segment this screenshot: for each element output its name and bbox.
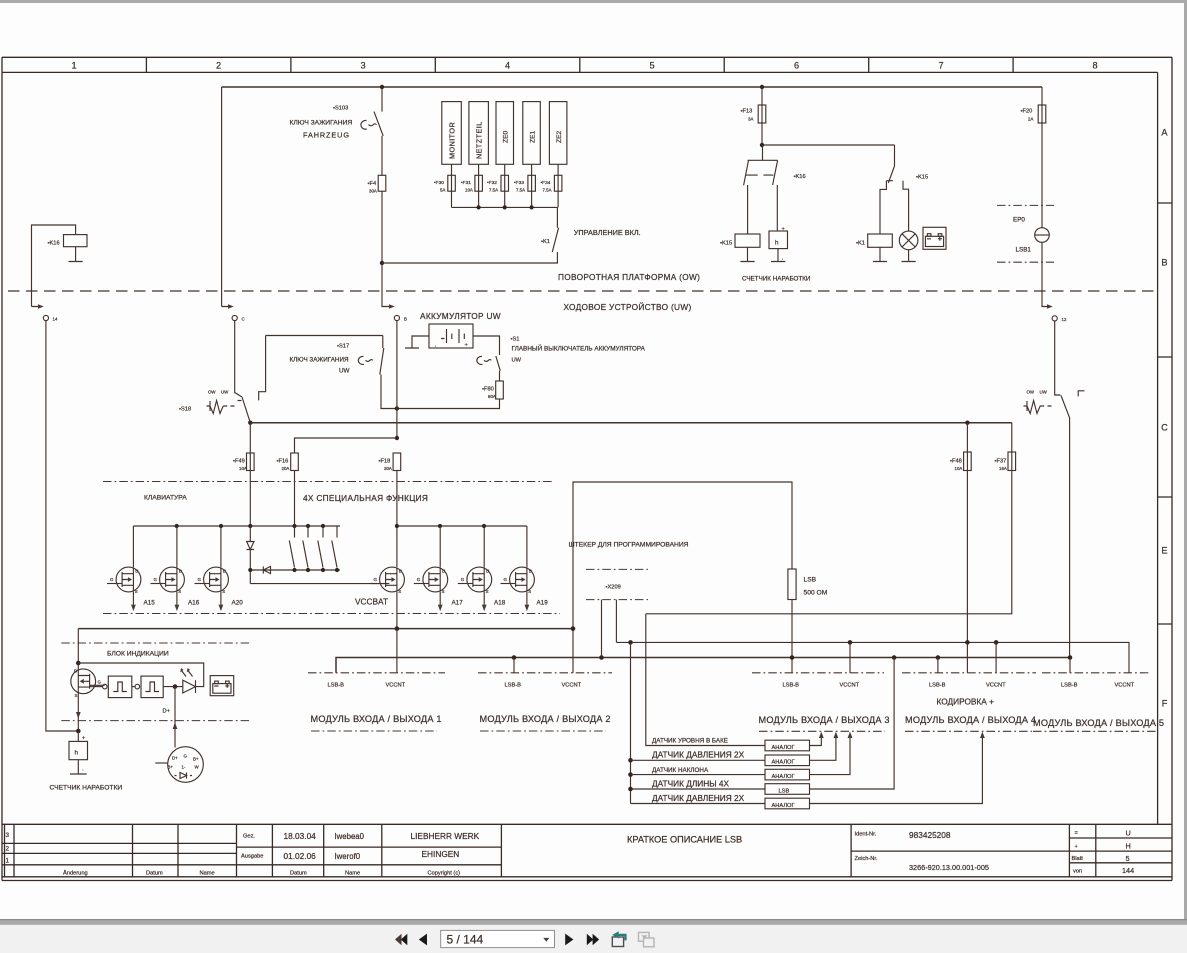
junction F48/VCCNT2 (965, 640, 970, 645)
svg-text:4: 4 (505, 61, 510, 71)
fuse F80 (496, 381, 504, 399)
svg-text:30A: 30A (384, 466, 392, 471)
rotate/insert icon (enabled, teal arrow) (612, 931, 625, 946)
fuse F34 (557, 164, 559, 207)
wire to K15 coil (747, 185, 749, 234)
dashed OW/UW separator (8, 290, 1155, 292)
row letters (1161, 128, 1168, 709)
svg-text:•K16: •K16 (794, 174, 806, 180)
wire col3 drop to B (382, 263, 392, 307)
svg-text:ШТЕКЕР ДЛЯ ПРОГРАММИРОВАНИЯ: ШТЕКЕР ДЛЯ ПРОГРАММИРОВАНИЯ (569, 542, 689, 549)
terminal circle B (394, 315, 399, 320)
junction module2 LSB-B (512, 655, 517, 660)
transistor A17 (414, 567, 448, 592)
svg-text:C: C (242, 317, 245, 322)
svg-text:•F32: •F32 (487, 180, 497, 186)
lamp (899, 231, 918, 250)
last-page button (587, 934, 594, 945)
svg-text:•K16: •K16 (48, 241, 60, 247)
svg-text:LSB-B: LSB-B (505, 683, 522, 689)
transistor A18 (458, 567, 492, 592)
junction X209 pin1 (599, 655, 604, 660)
wire sensor feed drop (630, 642, 632, 803)
wire B drop to F18 (396, 321, 398, 438)
svg-text:8: 8 (1092, 61, 1097, 71)
svg-text:A: A (1161, 128, 1168, 138)
indicator dashed border bottom (61, 720, 252, 722)
connector EP0/LSB1 (997, 204, 1054, 206)
svg-text:7: 7 (938, 61, 943, 71)
svg-text:КОДИРОВКА +: КОДИРОВКА + (937, 697, 995, 707)
svg-text:5: 5 (1126, 854, 1130, 863)
svg-text:•F33: •F33 (514, 180, 524, 186)
svg-text:10A: 10A (465, 188, 473, 193)
svg-text:C: C (1161, 423, 1168, 433)
fuse F16 (291, 453, 299, 471)
svg-text:A16: A16 (188, 600, 200, 607)
sensor row2 dot (628, 758, 633, 763)
svg-text:LSB: LSB (804, 577, 817, 584)
wire F48 leg (966, 423, 968, 643)
junction VCCBAT drain (395, 524, 399, 528)
wire VCCNT bus (78, 628, 573, 630)
fuse F20 (1041, 87, 1043, 228)
svg-text:E: E (1161, 546, 1167, 556)
svg-text:10A: 10A (955, 466, 963, 471)
svg-text:A17: A17 (452, 600, 464, 607)
svg-text:EHINGEN: EHINGEN (422, 849, 460, 859)
sensor row3 arrow to module3 (810, 738, 851, 775)
svg-text:СЧЕТЧИК НАРАБОТКИ: СЧЕТЧИК НАРАБОТКИ (742, 276, 811, 283)
wire battery left to earth (405, 336, 429, 348)
svg-text:H: H (1126, 842, 1131, 851)
indicator source arrow (77, 693, 79, 731)
wire VCCBAT gate feed (250, 583, 389, 585)
svg-text:7.5A: 7.5A (543, 188, 552, 193)
junction module2 VCCNT (571, 626, 576, 631)
junction F31 bus (477, 205, 481, 209)
module5 LSB-B drop (1069, 658, 1071, 673)
svg-text:LIEBHERR WERK: LIEBHERR WERK (411, 831, 480, 841)
svg-text:•K15: •K15 (916, 175, 928, 181)
svg-text:МОДУЛЬ ВХОДА / ВЫХОДА 4: МОДУЛЬ ВХОДА / ВЫХОДА 4 (905, 715, 1036, 725)
svg-text:500 ОМ: 500 ОМ (804, 590, 828, 597)
module dash tops (308, 672, 445, 674)
wire 14 drop (46, 321, 78, 731)
contact K15 (880, 145, 909, 234)
duplicate icon (disabled, gray) (639, 932, 655, 946)
svg-text:D+: D+ (163, 709, 171, 715)
junction A20 drain (219, 524, 223, 528)
transistor indicator (mirrored) (71, 669, 105, 694)
svg-text:ДАТЧИК ДЛИНЫ 4Х: ДАТЧИК ДЛИНЫ 4Х (652, 778, 729, 788)
first-page button (395, 934, 402, 945)
junction module4 VCCNT (994, 640, 999, 645)
svg-text:12: 12 (1062, 317, 1067, 322)
svg-text:G: G (184, 754, 188, 759)
svg-text:•K1: •K1 (541, 239, 550, 245)
svg-text:U: U (1126, 829, 1131, 838)
switch SF2 (303, 526, 308, 568)
sensor row4 box (765, 784, 810, 795)
wire F16 link (295, 438, 397, 453)
fuse F48 (964, 452, 972, 471)
svg-text:•F30: •F30 (434, 180, 444, 186)
svg-text:5 / 144: 5 / 144 (447, 933, 484, 947)
svg-text:•F80: •F80 (482, 387, 494, 393)
svg-text:КЛЮЧ ЗАЖИГАНИЯ: КЛЮЧ ЗАЖИГАНИЯ (290, 357, 350, 364)
connector X209 (586, 568, 648, 570)
svg-text:3: 3 (6, 832, 10, 839)
svg-text:18.03.04: 18.03.04 (284, 831, 317, 841)
svg-text:Ident-Nr.: Ident-Nr. (855, 832, 877, 838)
svg-text:LSB-B: LSB-B (929, 683, 946, 689)
transistor A19 (501, 567, 535, 592)
terminal circle 12 (1052, 316, 1057, 321)
keyboard dashed border top (103, 481, 554, 483)
sensor row4 dot (628, 787, 633, 792)
module1 drops (396, 629, 398, 673)
svg-text:.: . (782, 255, 784, 262)
wire battery right to S1 (473, 336, 500, 355)
relay coil K16 (64, 235, 88, 247)
wire EP0 drop (1042, 242, 1050, 306)
svg-text:•S1: •S1 (511, 337, 520, 343)
svg-text:Blatt: Blatt (1072, 856, 1084, 862)
fuse F30 (451, 164, 453, 207)
switch S103 ignition key FAHRZEUG (374, 87, 383, 175)
fuse F37 (1008, 452, 1016, 471)
svg-text:2: 2 (216, 61, 221, 71)
svg-text:7.5A: 7.5A (516, 188, 525, 193)
junction module4 LSB-B (936, 655, 941, 660)
junction module3 VCCNT (848, 640, 853, 645)
junction F49 feed (248, 524, 252, 528)
junction A17 drain (438, 524, 442, 528)
wire K15 contact feed (762, 144, 895, 146)
relay K16 branch (left) (32, 225, 76, 307)
box ZE2 (549, 102, 567, 165)
svg-text:FAHRZEUG: FAHRZEUG (303, 131, 350, 140)
svg-text:•F37: •F37 (995, 459, 1007, 465)
svg-text:20A: 20A (282, 466, 290, 471)
svg-text:h: h (775, 240, 779, 247)
wire programming loop (573, 482, 792, 673)
svg-text:2: 2 (6, 846, 10, 853)
transistor VCCBAT (371, 567, 405, 592)
sensor row3 dot (628, 772, 633, 777)
svg-text:Änderung: Änderung (63, 870, 88, 877)
switch S17 ignition key UW (259, 336, 397, 409)
svg-text:•S18: •S18 (179, 407, 191, 413)
fuse F33 (531, 164, 533, 207)
junction sensor feed (628, 640, 633, 645)
wire fuse bus (452, 206, 558, 208)
indicator dashed border top (61, 642, 252, 644)
svg-text:LSB1: LSB1 (1016, 247, 1032, 254)
svg-text:АНАЛОГ: АНАЛОГ (772, 760, 795, 766)
svg-text:•F20: •F20 (1021, 109, 1033, 115)
terminal circle 14 (43, 315, 48, 320)
sensor row1 arrow to module3 (810, 738, 822, 746)
svg-text:NETZTEIL: NETZTEIL (475, 121, 484, 159)
svg-text:КЛАВИАТУРА: КЛАВИАТУРА (144, 495, 187, 502)
switch SF3 (318, 526, 323, 568)
LED (163, 686, 183, 688)
junction SF3 top (321, 524, 325, 528)
toolbar separator band (0, 919, 1187, 925)
module2 LSB-B drop (513, 658, 515, 673)
junction A16 drain (175, 524, 179, 528)
svg-text:ХОДОВОЕ УСТРОЙСТВО (UW): ХОДОВОЕ УСТРОЙСТВО (UW) (564, 301, 692, 312)
svg-text:МОДУЛЬ ВХОДА / ВЫХОДА 3: МОДУЛЬ ВХОДА / ВЫХОДА 3 (759, 715, 890, 725)
svg-text:2A: 2A (1028, 117, 1033, 122)
svg-text:•F34: •F34 (541, 180, 551, 186)
wire right drain bus (397, 525, 527, 527)
LED return wire (78, 663, 203, 687)
svg-text:МОДУЛЬ ВХОДА / ВЫХОДА 5: МОДУЛЬ ВХОДА / ВЫХОДА 5 (1033, 718, 1164, 728)
svg-text:АККУМУЛЯТОР UW: АККУМУЛЯТОР UW (420, 311, 501, 321)
svg-text:.: . (82, 766, 84, 773)
svg-text:UW: UW (512, 358, 522, 364)
resistor LSB 500 Ohm (788, 569, 796, 600)
junction SF1 top (292, 524, 296, 528)
svg-text:1: 1 (6, 858, 10, 865)
sensor row5 box (765, 798, 810, 809)
contact K16 changeover (744, 145, 778, 185)
svg-text:СЧЕТЧИК НАРАБОТКИ: СЧЕТЧИК НАРАБОТКИ (50, 785, 123, 792)
svg-text:VCCNT: VCCNT (840, 683, 860, 689)
svg-text:6: 6 (794, 61, 799, 71)
wire VCCNT corner to indicator mosfet (77, 629, 79, 663)
svg-text:B: B (1161, 258, 1167, 268)
fuse F31 (478, 164, 480, 207)
svg-text:Iwebea0: Iwebea0 (335, 832, 365, 841)
switch SF1 (289, 526, 294, 568)
module3 VCCNT drop (849, 642, 851, 672)
svg-text:Gez.: Gez. (243, 834, 255, 840)
svg-text:УПРАВЛЕНИЕ ВКЛ.: УПРАВЛЕНИЕ ВКЛ. (574, 228, 641, 237)
battery icon (indicator) (210, 676, 234, 696)
svg-text:ZE2: ZE2 (556, 130, 563, 143)
schmitt trigger 1 (90, 686, 103, 688)
pin labels (328, 683, 1135, 689)
svg-text:3266-920.13.00.001-005: 3266-920.13.00.001-005 (909, 863, 989, 872)
svg-text:UW: UW (339, 368, 350, 375)
node top rail col6 (760, 85, 764, 89)
svg-text:MONITOR: MONITOR (448, 122, 457, 159)
transistor A16 (151, 567, 185, 592)
wire row-C bus (250, 422, 1012, 424)
module4 VCCNT drop (995, 642, 997, 672)
wire to hour counter (776, 185, 778, 231)
sensor row3 box (765, 769, 810, 780)
svg-text:A18: A18 (494, 600, 506, 607)
box ZE1 (523, 102, 541, 165)
svg-text:1-: 1- (182, 765, 186, 770)
sensor row4 wire to LSB-B bus (810, 658, 895, 790)
X209 pin2 wire (615, 600, 617, 643)
svg-text:OW: OW (208, 390, 216, 395)
svg-text:VCCNT: VCCNT (1115, 683, 1135, 689)
junction LSB resistor / module3 LSB-B (790, 655, 795, 660)
svg-text:КЛЮЧ ЗАЖИГАНИЯ: КЛЮЧ ЗАЖИГАНИЯ (290, 120, 353, 127)
hour counter h (769, 231, 788, 249)
transistor A20 (195, 567, 229, 592)
svg-text:•S17: •S17 (337, 344, 349, 350)
X209 pin1 wire (601, 600, 603, 658)
battery UW (429, 324, 473, 348)
svg-text:G: G (98, 680, 102, 685)
sensor row5 wire (631, 803, 766, 805)
junction F32 bus (503, 205, 507, 209)
svg-text:A19: A19 (537, 600, 549, 607)
svg-text:ДАТЧИК ДАВЛЕНИЯ 2Х: ДАТЧИК ДАВЛЕНИЯ 2Х (652, 750, 745, 760)
svg-text:АНАЛОГ: АНАЛОГ (772, 803, 795, 809)
junction A18 drain (482, 524, 486, 528)
svg-text:LSB-B: LSB-B (1061, 683, 1078, 689)
svg-text:A15: A15 (144, 600, 156, 607)
svg-text:EP0: EP0 (1013, 217, 1025, 224)
schmitt trigger 2 (132, 686, 135, 688)
node F13 bottom (760, 143, 764, 147)
column numbers (71, 61, 1097, 71)
diode to switches (250, 569, 340, 571)
sensor row2 arrow to module3 (810, 738, 836, 761)
svg-text:Name: Name (200, 871, 215, 877)
svg-text:h: h (75, 750, 79, 757)
svg-text:30A: 30A (369, 189, 377, 194)
node S18/bus (248, 421, 252, 425)
svg-text:МОДУЛЬ ВХОДА / ВЫХОДА 1: МОДУЛЬ ВХОДА / ВЫХОДА 1 (311, 714, 442, 724)
box ZE0 (496, 102, 514, 165)
svg-text:Zeich-Nr.: Zeich-Nr. (855, 856, 878, 862)
wire keyboard bus (133, 525, 340, 527)
box NETZTEIL (469, 102, 489, 165)
module names (311, 714, 1165, 728)
svg-text:UW: UW (1040, 390, 1048, 395)
svg-text:OW: OW (1027, 390, 1035, 395)
svg-text:1: 1 (71, 61, 76, 71)
svg-text:4Х СПЕЦИАЛЬНАЯ ФУНКЦИЯ: 4Х СПЕЦИАЛЬНАЯ ФУНКЦИЯ (303, 493, 428, 503)
generator (168, 747, 204, 783)
svg-text:ДАТЧИК НАКЛОНА: ДАТЧИК НАКЛОНА (652, 767, 709, 774)
prev-page button (419, 934, 427, 946)
diode series (249, 526, 251, 541)
svg-text:01.02.06: 01.02.06 (284, 851, 317, 861)
svg-text:•F13: •F13 (741, 109, 753, 115)
switch SF4 (332, 526, 337, 568)
fuse F13 (761, 87, 763, 145)
svg-text:LSB-B: LSB-B (328, 683, 345, 689)
svg-text:LSB: LSB (779, 788, 790, 794)
sensor row1 box (765, 740, 810, 751)
svg-text:•K1: •K1 (856, 241, 865, 247)
svg-text:B+: B+ (193, 757, 199, 762)
wire VCCNT2 line (616, 642, 1129, 672)
module4 coding drop (966, 643, 968, 673)
node F16/F18 tie (395, 436, 399, 440)
node F48 tap (965, 421, 969, 425)
svg-text:ZE0: ZE0 (503, 130, 510, 143)
wire column2 drop (222, 87, 231, 307)
svg-text:•F4: •F4 (368, 181, 377, 187)
svg-text:•F48: •F48 (950, 459, 962, 465)
wire LSB-B bus (336, 658, 1070, 673)
battery icon (OW) (923, 227, 946, 249)
junction sensor LSB line (892, 655, 897, 660)
node counter tie (76, 729, 81, 734)
svg-text:ПОВОРОТНАЯ ПЛАТФОРМА (OW): ПОВОРОТНАЯ ПЛАТФОРМА (OW) (558, 272, 700, 282)
svg-text:3: 3 (360, 61, 365, 71)
svg-text:5A: 5A (440, 188, 445, 193)
module name dash underlines (311, 730, 437, 732)
svg-text:5: 5 (649, 61, 654, 71)
svg-text:Datum: Datum (146, 871, 163, 877)
node top rail col3 (380, 85, 384, 89)
svg-text:S: S (75, 693, 78, 698)
svg-text:МОДУЛЬ ВХОДА / ВЫХОДА 2: МОДУЛЬ ВХОДА / ВЫХОДА 2 (480, 714, 611, 724)
svg-text:Ausgabe: Ausgabe (241, 854, 263, 860)
fuse F32 (504, 164, 506, 207)
svg-text:A20: A20 (232, 600, 244, 607)
svg-text:•K15: •K15 (720, 241, 732, 247)
svg-text:•F49: •F49 (233, 459, 245, 465)
svg-text:Datum: Datum (290, 871, 307, 877)
wire F37 leg (646, 423, 1012, 614)
sensor row2 wire (631, 759, 766, 761)
svg-text:VCCNT: VCCNT (386, 683, 406, 689)
junction module5 LSB-B (1068, 655, 1073, 660)
svg-text:VCCNT: VCCNT (986, 683, 1006, 689)
svg-text:БЛОК ИНДИКАЦИИ: БЛОК ИНДИКАЦИИ (107, 651, 169, 658)
node indicator drain (76, 661, 81, 666)
wire top rail (222, 86, 1042, 88)
junction diode rail (248, 568, 252, 572)
svg-text:LSB-B: LSB-B (783, 683, 800, 689)
contact K1 (552, 207, 558, 252)
svg-text:14: 14 (53, 317, 58, 322)
svg-text:16A: 16A (999, 466, 1007, 471)
svg-text:•S103: •S103 (333, 106, 348, 112)
svg-text:ГЛАВНЫЙ ВЫКЛЮЧАТЕЛЬ АККУМУЛЯТО: ГЛАВНЫЙ ВЫКЛЮЧАТЕЛЬ АККУМУЛЯТОРА (512, 344, 646, 353)
svg-text:Iwerof0: Iwerof0 (335, 852, 361, 861)
svg-text:•F18: •F18 (379, 459, 391, 465)
fuse F18 (393, 453, 401, 471)
page combobox (441, 930, 555, 947)
svg-text:F: F (1162, 699, 1168, 709)
svg-text:983425208: 983425208 (909, 830, 951, 840)
svg-text:B+: B+ (168, 765, 174, 770)
switch S18 blade (242, 397, 250, 423)
svg-text:UW: UW (221, 390, 229, 395)
svg-text:АНАЛОГ: АНАЛОГ (772, 774, 795, 780)
fuse F49 (249, 423, 251, 526)
keyboard dashed border bottom (103, 613, 560, 615)
wire D+ to generator (174, 687, 176, 748)
svg-text:ДАТЧИК ДАВЛЕНИЯ 2Х: ДАТЧИК ДАВЛЕНИЯ 2Х (652, 793, 745, 803)
sensor row3 wire (631, 774, 766, 776)
svg-text:КРАТКОЕ ОПИСАНИЕ LSB: КРАТКОЕ ОПИСАНИЕ LSB (627, 835, 742, 845)
svg-text:7.5A: 7.5A (489, 188, 498, 193)
wire row1 sensor feed (646, 614, 765, 746)
svg-text:von: von (1073, 869, 1082, 875)
next-page button (565, 934, 573, 946)
svg-text:VCCBAT: VCCBAT (355, 597, 388, 607)
relay coil K1 (868, 234, 893, 247)
svg-text:D+: D+ (172, 756, 178, 761)
svg-text:3A: 3A (748, 117, 753, 122)
